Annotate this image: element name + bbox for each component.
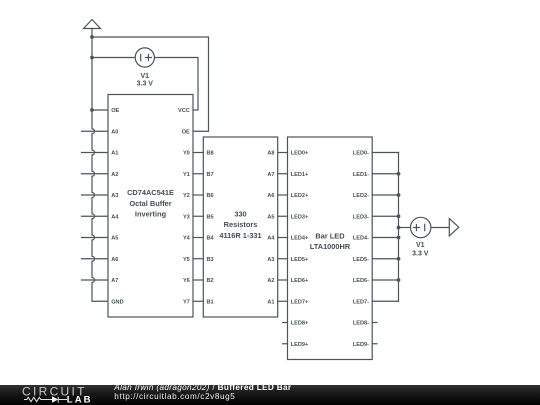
wire: LED3- to right bus	[372, 215, 398, 217]
svg-text:A0: A0	[111, 129, 118, 135]
wire: input stub A3	[82, 194, 109, 196]
svg-text:LED5-: LED5-	[353, 257, 369, 263]
svg-text:LED1-: LED1-	[353, 172, 369, 178]
svg-text:OE: OE	[182, 129, 190, 135]
junction: right bus / LED3-	[397, 214, 401, 218]
wire: right bus to V1 positive terminal	[399, 227, 411, 229]
svg-text:Octal Buffer: Octal Buffer	[129, 199, 171, 208]
svg-text:LED0+: LED0+	[291, 151, 309, 157]
svg-text:A6: A6	[267, 193, 274, 199]
junction: bus / OE-right branch	[90, 35, 94, 39]
svg-text:B3: B3	[207, 257, 214, 263]
svg-text:Resistors: Resistors	[224, 220, 258, 229]
wire: input stub A5	[82, 237, 109, 239]
wire: input stub A7	[82, 279, 109, 281]
svg-text:B2: B2	[207, 278, 214, 284]
wire: top branch to right-side OE pin	[92, 37, 209, 131]
svg-text:LED1+: LED1+	[291, 172, 309, 178]
wire: input stub A2	[82, 173, 109, 175]
svg-text:A6: A6	[111, 257, 118, 263]
svg-text:GND: GND	[111, 299, 123, 305]
junction: right bus / LED5-	[397, 257, 401, 261]
svg-text:4116R 1-331: 4116R 1-331	[219, 231, 261, 240]
bar LED LTA1000HR body	[288, 137, 373, 360]
svg-text:LED6+: LED6+	[291, 278, 309, 284]
wire: bus to OE-left pin	[92, 109, 108, 111]
svg-text:330: 330	[234, 210, 246, 219]
wire: LED7- to right bus	[372, 300, 398, 302]
wire: LED2- to right bus	[372, 194, 398, 196]
wire: LED5- to right bus	[372, 258, 398, 260]
wire: Y6 to B2	[193, 279, 203, 281]
junction: right bus / V1	[397, 226, 401, 230]
wire: Y3 to B5	[193, 215, 203, 217]
svg-text:LED8-: LED8-	[353, 321, 369, 327]
svg-text:LED9+: LED9+	[291, 342, 309, 348]
svg-text:3.3 V: 3.3 V	[412, 250, 429, 257]
CircuitLab logo: resistor zigzag	[24, 397, 52, 401]
svg-text:V1: V1	[141, 73, 150, 80]
wire: Y0 to B8	[193, 152, 203, 154]
svg-text:B4: B4	[207, 236, 215, 242]
svg-text:A3: A3	[267, 257, 274, 263]
pin stub LED8-	[372, 322, 377, 324]
CircuitLab logo: diode symbol	[52, 396, 58, 403]
wire: V1 negative terminal to output flag	[431, 227, 449, 229]
svg-text:LED8+: LED8+	[291, 321, 309, 327]
IC U1 CD74AC541E octal buffer body	[108, 95, 193, 318]
wire: right vertical bus	[398, 153, 400, 302]
svg-text:LED3-: LED3-	[353, 214, 369, 220]
wire: bus to V1 negative terminal	[92, 57, 135, 59]
svg-text:LED3+: LED3+	[291, 214, 309, 220]
junction: bus / V1 branch	[90, 56, 94, 60]
wire: A6 to LED2+	[278, 194, 288, 196]
wire: A7 to LED1+	[278, 173, 288, 175]
svg-text:B5: B5	[207, 214, 214, 220]
svg-text:Bar LED: Bar LED	[315, 231, 345, 240]
svg-text:A2: A2	[267, 278, 274, 284]
wire: input stub A6	[82, 258, 109, 260]
svg-text:V1: V1	[416, 242, 425, 249]
svg-text:A5: A5	[267, 214, 274, 220]
svg-text:B1: B1	[207, 299, 214, 305]
svg-text:A4: A4	[267, 236, 275, 242]
svg-text:LED2-: LED2-	[353, 193, 369, 199]
junction: right bus / LED6-	[397, 278, 401, 282]
svg-text:A3: A3	[111, 193, 118, 199]
svg-text:Y2: Y2	[183, 193, 190, 199]
wire: LED6- to right bus	[372, 279, 398, 281]
svg-text:Alan Irwin (adragon202) / Buff: Alan Irwin (adragon202) / Buffered LED B…	[113, 384, 292, 392]
svg-text:LED9-: LED9-	[353, 342, 369, 348]
wire: A1 to LED7+	[278, 300, 288, 302]
voltage source V1 (right, 3.3 V)	[411, 217, 431, 237]
svg-text:CD74AC541E: CD74AC541E	[127, 188, 174, 197]
junction: right bus / LED1-	[397, 172, 401, 176]
wire: Y4 to B4	[193, 237, 203, 239]
resistor pack 4116R 1-331 body	[203, 137, 277, 317]
svg-text:LED0-: LED0-	[353, 151, 369, 157]
svg-text:LED6-: LED6-	[353, 278, 369, 284]
voltage source V1 (left, 3.3 V)	[135, 48, 154, 67]
svg-text:LED5+: LED5+	[291, 257, 309, 263]
net flag VDD triangle (top)	[84, 20, 101, 29]
svg-text:LAB: LAB	[67, 394, 93, 405]
svg-text:Y0: Y0	[183, 151, 190, 157]
svg-text:A2: A2	[111, 172, 118, 178]
svg-text:B7: B7	[207, 172, 214, 178]
wire: input stub A4	[82, 215, 109, 217]
wire: LED1- to right bus	[372, 173, 398, 175]
svg-text:Inverting: Inverting	[135, 209, 167, 218]
svg-text:A1: A1	[267, 299, 274, 305]
junction: bus / OE-left pin	[90, 108, 94, 112]
svg-text:A7: A7	[111, 278, 118, 284]
wire: A3 to LED5+	[278, 258, 288, 260]
svg-text:A5: A5	[111, 236, 118, 242]
pin stub LED9-	[372, 343, 377, 345]
svg-text:LED7+: LED7+	[291, 299, 309, 305]
wire: V1 positive terminal to VCC pin	[154, 58, 198, 111]
svg-text:Y5: Y5	[183, 257, 190, 263]
wire: A4 to LED4+	[278, 237, 288, 239]
wire: Y5 to B3	[193, 258, 203, 260]
svg-text:A4: A4	[111, 214, 119, 220]
svg-text:Y6: Y6	[183, 278, 190, 284]
wire: A8 to LED0+	[278, 152, 288, 154]
wire: A2 to LED6+	[278, 279, 288, 281]
junction: right bus / LED4-	[397, 236, 401, 240]
pin stub LED9+	[283, 343, 288, 345]
wire: left vertical bus from triangle to GND with hops over A0-A7	[92, 29, 108, 302]
svg-text:LED4+: LED4+	[291, 236, 309, 242]
wire: LED4- to right bus	[372, 237, 398, 239]
svg-text:Y7: Y7	[183, 299, 190, 305]
svg-text:A7: A7	[267, 172, 274, 178]
net flag output triangle (right)	[449, 219, 459, 236]
svg-text:OE: OE	[111, 108, 119, 114]
wire: A5 to LED3+	[278, 215, 288, 217]
svg-text:3.3 V: 3.3 V	[137, 81, 154, 88]
wire: input stub A0	[82, 130, 109, 132]
svg-text:LED4-: LED4-	[353, 236, 369, 242]
svg-text:B6: B6	[207, 193, 214, 199]
footer bar	[0, 385, 540, 405]
svg-text:Y1: Y1	[183, 172, 190, 178]
svg-text:A1: A1	[111, 151, 118, 157]
wire: Y7 to B1	[193, 300, 203, 302]
pin stub LED8+	[283, 322, 288, 324]
svg-text:LED7-: LED7-	[353, 299, 369, 305]
svg-text:Y3: Y3	[183, 214, 190, 220]
svg-text:A8: A8	[267, 151, 274, 157]
wire: input stub A1	[82, 152, 109, 154]
wire: Y1 to B7	[193, 173, 203, 175]
svg-text:http://circuitlab.com/c2v8ug5: http://circuitlab.com/c2v8ug5	[114, 392, 235, 401]
wire: LED0- to right bus	[372, 152, 398, 154]
wire: Y2 to B6	[193, 194, 203, 196]
svg-text:LED2+: LED2+	[291, 193, 309, 199]
junction: right bus / LED2-	[397, 193, 401, 197]
svg-text:B8: B8	[207, 151, 214, 157]
svg-text:VCC: VCC	[178, 108, 190, 114]
svg-text:Y4: Y4	[183, 236, 191, 242]
svg-text:LTA1000HR: LTA1000HR	[310, 242, 351, 251]
